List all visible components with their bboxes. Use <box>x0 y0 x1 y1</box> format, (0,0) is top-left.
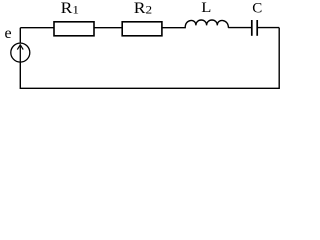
svg-text:R1: R1 <box>61 0 79 17</box>
svg-text:R2: R2 <box>134 0 152 17</box>
svg-text:e: e <box>5 25 12 42</box>
svg-text:L: L <box>201 0 211 16</box>
svg-text:C: C <box>252 1 262 17</box>
